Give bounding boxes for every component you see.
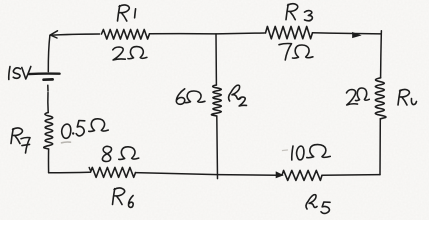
label R5 — [306, 195, 330, 214]
wire top-right segment — [313, 33, 382, 34]
battery short plate — [44, 78, 53, 81]
label R2 — [229, 85, 247, 106]
arrowhead on top wire right — [353, 32, 361, 37]
wire top-left segment — [50, 34, 100, 35]
wire middle vertical lower — [216, 116, 219, 179]
label R3 — [286, 4, 312, 21]
value 10 ohm (R5) — [283, 145, 331, 160]
wire middle vertical upper — [215, 34, 217, 85]
resistor R3 — [266, 26, 313, 38]
label R1 — [118, 5, 136, 21]
label R4 — [398, 90, 417, 105]
source label 15V — [9, 67, 36, 80]
resistor R4 — [375, 78, 386, 119]
wire bottom-left segment — [49, 171, 90, 174]
resistor R7 — [44, 113, 53, 150]
value 0.5 ohm (R7) — [62, 119, 108, 139]
wire left vertical lower — [48, 149, 50, 173]
tick before R6 — [89, 168, 90, 171]
resistor R1 — [102, 30, 150, 40]
value 7 ohm (R3) — [279, 43, 313, 60]
value 2 ohm (R4) — [347, 88, 370, 105]
wire left vertical upper — [48, 35, 50, 71]
wire below battery — [47, 85, 49, 91]
wire bottom-mid segment — [136, 173, 279, 176]
wire right vertical upper — [380, 31, 383, 78]
value 8 ohm (R6) — [102, 146, 138, 161]
battery 15V source: long plate — [29, 72, 60, 75]
label R7 — [11, 128, 30, 153]
arrowhead before R5 — [276, 172, 283, 178]
value 2 ohm (R1) — [113, 47, 147, 60]
wire bottom-right segment — [322, 174, 380, 177]
resistor R6 — [91, 167, 136, 177]
wire top-mid segment — [150, 32, 265, 35]
faint pencil smudge — [62, 141, 71, 144]
value 6 ohm (R2) — [176, 89, 205, 104]
label R6 — [113, 188, 134, 207]
resistor R2 — [211, 85, 221, 116]
resistor R5 — [282, 170, 322, 180]
wire right vertical lower — [379, 119, 381, 175]
arrowhead at top-left corner — [50, 31, 57, 38]
